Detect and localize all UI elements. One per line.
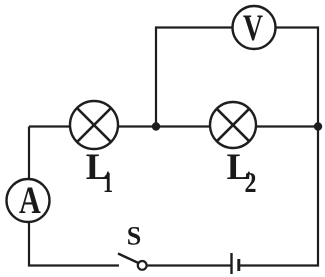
svg-text:1: 1 <box>103 167 113 199</box>
switch S lever <box>118 254 140 264</box>
node junction dot right (main wire to right rail) <box>314 122 322 130</box>
svg-text:S: S <box>127 222 141 251</box>
voltmeter V <box>233 6 276 49</box>
battery short plate <box>237 259 240 271</box>
lamp L1 <box>70 101 118 149</box>
wire: bottom middle horizontal switch to battery <box>147 264 232 266</box>
battery long plate <box>230 253 232 274</box>
wire: voltmeter branch (junction up, top horizontal, right rail down, bottom right to battery) <box>156 28 318 266</box>
label L2 <box>227 147 257 199</box>
lamp L2 <box>210 102 256 148</box>
wire: left rail (bottom-left to switch, up through ammeter to main wire) <box>29 127 119 266</box>
svg-text:A: A <box>19 179 41 222</box>
svg-text:2: 2 <box>245 167 257 199</box>
node junction dot left (V branch to main wire) <box>152 122 160 130</box>
label L1 <box>86 147 113 199</box>
switch S contact circle <box>138 261 147 270</box>
wire: main middle horizontal through lamps <box>29 125 318 127</box>
ammeter A <box>7 179 50 222</box>
svg-text:V: V <box>243 7 263 48</box>
